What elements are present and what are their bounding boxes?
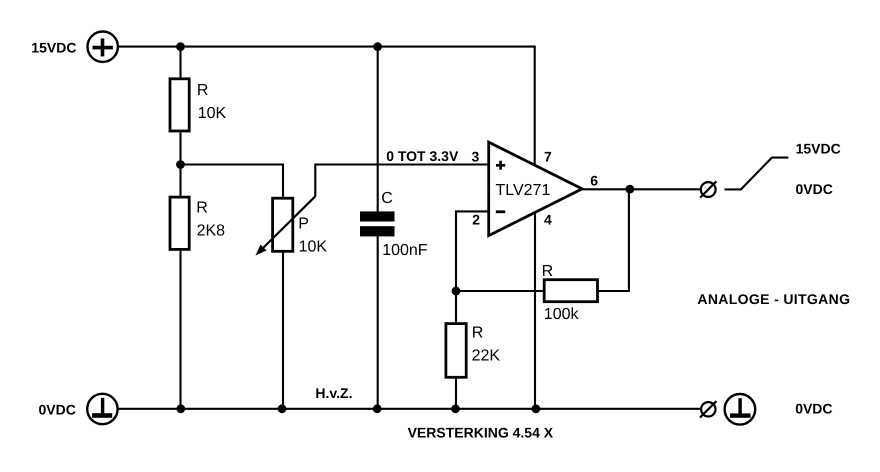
svg-text:0VDC: 0VDC xyxy=(795,400,832,416)
svg-text:H.v.Z.: H.v.Z. xyxy=(315,385,352,401)
svg-text:R: R xyxy=(472,324,484,341)
svg-text:100k: 100k xyxy=(544,306,580,323)
svg-text:C: C xyxy=(381,190,393,207)
svg-text:4: 4 xyxy=(544,212,552,228)
svg-text:2: 2 xyxy=(472,212,480,228)
svg-text:P: P xyxy=(298,215,309,232)
svg-text:VERSTERKING 4.54 X: VERSTERKING 4.54 X xyxy=(408,425,554,441)
svg-text:22K: 22K xyxy=(472,348,501,365)
svg-text:ANALOGE - UITGANG: ANALOGE - UITGANG xyxy=(697,291,850,307)
svg-text:0 TOT 3.3V: 0 TOT 3.3V xyxy=(386,148,459,164)
svg-text:TLV271: TLV271 xyxy=(496,182,551,199)
svg-text:2K8: 2K8 xyxy=(197,222,226,239)
svg-text:R: R xyxy=(197,82,209,99)
svg-text:R: R xyxy=(542,263,554,280)
svg-text:15VDC: 15VDC xyxy=(31,39,76,55)
svg-text:0VDC: 0VDC xyxy=(796,181,833,197)
svg-text:R: R xyxy=(196,199,208,216)
svg-text:6: 6 xyxy=(590,173,598,189)
svg-text:3: 3 xyxy=(472,148,480,164)
svg-text:7: 7 xyxy=(544,148,552,164)
svg-text:100nF: 100nF xyxy=(382,242,428,259)
svg-text:15VDC: 15VDC xyxy=(796,141,841,157)
svg-text:0VDC: 0VDC xyxy=(39,402,76,418)
svg-text:10K: 10K xyxy=(198,105,227,122)
svg-text:10K: 10K xyxy=(299,238,328,255)
